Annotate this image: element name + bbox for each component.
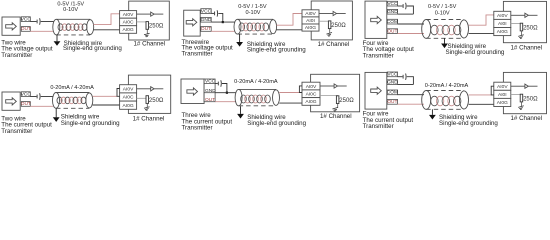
- P1R2 VCC wire: [30, 96, 36, 98]
- P3R1 resistor feed wire: [511, 22, 522, 24]
- P1R2 cable left end ellipse: [53, 93, 60, 109]
- svg-text:250Ω: 250Ω: [149, 98, 164, 104]
- P1R2 VCC wire b: [41, 96, 53, 98]
- svg-text:AI0G: AI0G: [123, 103, 134, 109]
- P3R1 shield ground arrow: [441, 44, 448, 49]
- svg-text:VCC: VCC: [21, 91, 32, 97]
- P3R1 VCC to GND loop: [407, 6, 414, 14]
- P1R2 arrow symbol: [6, 98, 17, 105]
- P2R1 channel outer box: [311, 1, 352, 40]
- P1R2 shield ground line: [55, 108, 57, 117]
- P2R1 shielded cable: top line: [238, 18, 274, 20]
- P1R2 transmitter box: [2, 92, 20, 110]
- P3R2 COM wire: [398, 94, 424, 96]
- P2R2 arrow symbol: [187, 88, 198, 95]
- P2R2 shield ground line: [240, 106, 242, 114]
- P2R1 buffer amplifier wire: [319, 13, 333, 15]
- P2R2 OUT red wire: [215, 101, 235, 103]
- P2R1 cable left end ellipse: [234, 19, 241, 34]
- svg-text:1# Channel: 1# Channel: [510, 115, 542, 122]
- P1R2 OUT red wire: [30, 105, 53, 107]
- svg-text:250Ω: 250Ω: [523, 96, 538, 102]
- P2R1 twisted pair loops: [239, 23, 269, 31]
- P3R2 resistor 250 ohm: [520, 94, 523, 102]
- P2R1 VCC wire: [211, 12, 214, 14]
- P3R2 internal earth symbol: [518, 106, 524, 110]
- P1R1 terminal AI0C: [120, 18, 137, 26]
- svg-text:GND: GND: [387, 9, 398, 15]
- svg-text:GND: GND: [205, 88, 216, 94]
- P3R1 channel outer box: [503, 1, 546, 42]
- svg-text:Transmitter: Transmitter: [1, 52, 32, 59]
- svg-text:0-10V: 0-10V: [63, 7, 78, 13]
- svg-text:Single-end grounding: Single-end grounding: [439, 120, 498, 127]
- P1R1 internal earth symbol: [144, 33, 150, 37]
- P3R2 pin label OUT: [387, 100, 397, 105]
- P1R1 shield ground line: [56, 35, 58, 41]
- svg-text:AI0C: AI0C: [306, 92, 317, 98]
- svg-text:AI0V: AI0V: [497, 13, 508, 19]
- P2R1 arrow symbol: [186, 19, 197, 26]
- P1R1 arrow symbol: [6, 23, 17, 30]
- svg-text:250Ω: 250Ω: [331, 23, 346, 29]
- P2R2 terminal AI0G: [302, 98, 320, 106]
- P2R2 VCC to GND drop: [222, 84, 227, 93]
- P3R2 GND wire: [398, 84, 414, 86]
- svg-text:AI0G: AI0G: [305, 99, 316, 105]
- svg-text:VCC: VCC: [205, 79, 216, 85]
- P2R1 terminal AI0G: [302, 24, 319, 31]
- P3R1 pin label COM: [387, 19, 397, 24]
- svg-text:0-20mA / 4-20mA: 0-20mA / 4-20mA: [425, 83, 469, 89]
- P3R1 buffer amplifier triangle: [525, 13, 528, 17]
- svg-text:Single-end grounding: Single-end grounding: [247, 120, 306, 127]
- P2R2 cable right end ellipse: [273, 90, 280, 106]
- P2R1 black wire to AI0G: [276, 29, 302, 31]
- svg-text:1# Channel: 1# Channel: [133, 115, 165, 122]
- P1R2 cable right end ellipse: [86, 93, 93, 108]
- P3R1 cable left end ellipse: [422, 20, 431, 39]
- svg-text:250Ω: 250Ω: [149, 24, 164, 30]
- svg-text:AI0G: AI0G: [497, 29, 508, 35]
- P3R1 shielded cable: bottom dashed line: [426, 37, 464, 39]
- P3R2 V-C jumper link: [491, 86, 494, 95]
- P3R1 transmitter box: [365, 1, 387, 38]
- P1R2 terminal AI0V: [120, 85, 137, 93]
- P2R1 pin label GND: [201, 17, 211, 22]
- P3R1 twisted pair loops: [431, 25, 461, 35]
- P1R1 terminal AI0G: [120, 26, 137, 34]
- P2R1 cable right end ellipse: [270, 20, 277, 34]
- P1R1 resistor feed wire: [137, 21, 148, 23]
- P1R2 resistor 250 ohm: [146, 96, 149, 104]
- P2R1 shield ground arrow: [236, 42, 243, 47]
- P2R2 buffer amplifier wire: [320, 85, 334, 87]
- P3R2 pin label COM: [387, 90, 397, 95]
- P2R1 terminal AI0V: [302, 10, 319, 17]
- P1R1 buffer amplifier triangle: [151, 12, 154, 16]
- svg-text:AI0I: AI0I: [306, 18, 315, 24]
- P3R1 internal earth symbol: [518, 35, 524, 39]
- P1R1 shielded cable: top line: [56, 18, 90, 20]
- P1R1 red wire to AI0V: [94, 14, 120, 25]
- svg-text:OUT: OUT: [387, 99, 397, 105]
- P2R2 terminal AI0C: [302, 90, 320, 98]
- P3R2 cable left end ellipse: [422, 91, 431, 110]
- svg-text:Single-end grounding: Single-end grounding: [446, 49, 505, 56]
- P2R2 VCC wire: [215, 83, 218, 85]
- svg-text:AI0V: AI0V: [123, 12, 134, 18]
- svg-text:OUT: OUT: [387, 28, 397, 34]
- svg-text:AI0V: AI0V: [305, 11, 316, 17]
- P2R2 resistor 250 ohm: [336, 96, 339, 104]
- svg-text:Single-end grounding: Single-end grounding: [61, 120, 120, 127]
- P3R1 shielded cable: top line: [426, 19, 464, 21]
- svg-text:AI0V: AI0V: [497, 84, 508, 90]
- P2R1 shielded cable: bottom dashed line: [238, 33, 274, 35]
- svg-text:AI0V: AI0V: [306, 84, 317, 90]
- P3R1 pin label VCC: [387, 1, 397, 6]
- P1R2 buffer amplifier triangle: [151, 87, 154, 91]
- P1R2 twisted pair loops: [57, 97, 86, 104]
- P1R2 resistor feed wire: [137, 97, 148, 99]
- svg-text:GND: GND: [201, 17, 212, 23]
- P3R1 terminal AI0I: [494, 19, 511, 27]
- P3R1 pin label GND: [387, 9, 397, 14]
- P2R2 shield ground arrow: [237, 114, 244, 119]
- P3R1 COM wire: [398, 23, 424, 25]
- P3R1 red wire to AI0V: [469, 15, 494, 25]
- P2R1 GND wire: [211, 21, 234, 23]
- P3R2 twisted pair loops: [431, 96, 461, 106]
- P2R1 pin label VCC: [201, 9, 211, 14]
- P3R1 resistor 250 ohm: [520, 23, 523, 31]
- P1R2 pin label OUT: [21, 102, 30, 107]
- P1R1 cable right end ellipse: [87, 20, 94, 35]
- P3R1 power supply (battery) symbol: [402, 4, 404, 8]
- svg-text:AI0I: AI0I: [498, 21, 507, 27]
- P3R2 cable right end ellipse: [460, 91, 469, 109]
- svg-text:AI0V: AI0V: [123, 87, 134, 93]
- P1R2 power supply (battery) symbol: [36, 95, 38, 99]
- P1R1 terminal AI0V: [120, 11, 137, 19]
- P1R1 power supply (battery) symbol: [36, 20, 38, 24]
- P1R2 pin label VCC: [21, 92, 30, 97]
- P2R1 transmitter box: [184, 10, 201, 36]
- svg-text:Transmitter: Transmitter: [363, 123, 394, 130]
- P2R2 internal earth symbol: [332, 107, 338, 111]
- P2R2 power supply (battery) symbol: [217, 82, 219, 86]
- P1R1 resistor 250 ohm: [146, 22, 149, 30]
- P1R1 cable left end ellipse: [53, 19, 60, 35]
- P3R1 OUT red wire: [398, 33, 424, 35]
- P1R2 buffer amplifier wire: [137, 88, 151, 90]
- P2R2 shielded cable: top line: [239, 88, 276, 90]
- svg-text:Transmitter: Transmitter: [363, 52, 394, 59]
- P2R2 junction dot: [226, 92, 228, 94]
- svg-text:0-10V: 0-10V: [246, 10, 261, 16]
- svg-text:OUT: OUT: [201, 26, 211, 32]
- svg-text:AI0G: AI0G: [305, 25, 316, 31]
- svg-text:1# Channel: 1# Channel: [510, 45, 542, 52]
- P3R2 transmitter box: [365, 72, 387, 109]
- svg-text:VCC: VCC: [21, 16, 32, 22]
- P1R1 pin label VCC: [21, 17, 30, 22]
- P1R1 VCC wire: [30, 21, 36, 23]
- P2R1 OUT red wire: [211, 30, 234, 32]
- P1R2 shielded cable: bottom dashed line: [56, 107, 89, 109]
- P3R1 arrow symbol: [371, 16, 382, 23]
- P1R1 VCC wire b: [41, 21, 54, 23]
- svg-text:VCC: VCC: [387, 1, 398, 7]
- P1R2 shielded cable: top line: [56, 92, 89, 94]
- P1R2 terminal AI0C: [120, 93, 137, 101]
- svg-text:AI0G: AI0G: [497, 100, 508, 106]
- P1R2 internal earth symbol: [144, 107, 150, 111]
- P3R1 shield ground line: [444, 38, 446, 43]
- P2R1 terminal AI0I: [302, 17, 319, 24]
- P3R2 pin label GND: [387, 80, 397, 85]
- P3R2 arrow symbol: [371, 87, 382, 94]
- P1R1 pin label OUT: [21, 27, 30, 32]
- svg-text:COM: COM: [387, 90, 398, 96]
- P3R2 terminal AI0I: [494, 90, 511, 98]
- P3R1 terminal AI0G: [494, 28, 511, 36]
- P1R1 channel outer box: [129, 1, 170, 40]
- P2R1 red wire to AI0V: [276, 14, 302, 26]
- P2R2 terminal AI0V: [302, 82, 320, 90]
- svg-text:VCC: VCC: [387, 72, 398, 78]
- P3R2 shield ground arrow: [429, 115, 436, 120]
- P3R2 red wire to jumper: [469, 94, 492, 96]
- P3R2 shield ground line: [431, 109, 433, 115]
- P1R1 shield ground arrow: [54, 41, 61, 46]
- svg-text:Single-end grounding: Single-end grounding: [63, 45, 122, 52]
- P1R2 channel outer box: [128, 75, 170, 113]
- P2R2 channel outer box: [311, 74, 360, 112]
- P3R1 black wire to AI0G: [469, 32, 494, 34]
- P1R1 shielded cable: bottom dashed line: [56, 34, 90, 36]
- P2R2 buffer amplifier triangle: [334, 84, 337, 88]
- P1R2 shield ground arrow: [53, 117, 60, 122]
- P2R1 shield ground line: [239, 34, 241, 42]
- P2R1 resistor feed wire: [319, 20, 330, 22]
- P3R2 shielded cable: top line: [426, 90, 464, 92]
- svg-text:AI0C: AI0C: [123, 20, 134, 26]
- P3R2 VCC to GND loop: [407, 77, 414, 85]
- P3R1 cable right end ellipse: [460, 20, 469, 38]
- P3R2 buffer amplifier triangle: [525, 84, 528, 88]
- svg-text:OUT: OUT: [21, 101, 31, 107]
- P2R1 VCC to GND drop: [218, 13, 223, 22]
- P2R2 pin ladder frame: [204, 79, 215, 102]
- P1R1 transmitter box: [2, 17, 20, 35]
- svg-text:1# Channel: 1# Channel: [320, 113, 352, 120]
- P3R2 power supply (battery) symbol: [402, 75, 404, 79]
- P1R1 buffer amplifier wire: [137, 13, 151, 15]
- svg-text:Transmitter: Transmitter: [182, 50, 213, 57]
- P3R1 GND wire: [398, 13, 414, 15]
- P2R1 junction dot: [222, 21, 224, 23]
- P3R2 VCC wire: [398, 76, 403, 78]
- P2R2 resistor feed wire: [320, 95, 338, 97]
- P1R1 twisted pair loops: [58, 24, 87, 31]
- P1R1 black wire to AI0G: [94, 29, 120, 31]
- P2R2 GND wire: [215, 92, 236, 94]
- svg-text:COM: COM: [387, 19, 398, 25]
- P2R1 pin label OUT: [201, 27, 211, 32]
- svg-text:VCC: VCC: [201, 8, 212, 14]
- P2R2 shielded cable: bottom dashed line: [239, 105, 276, 107]
- P3R1 terminal AI0V: [494, 11, 511, 19]
- svg-text:0-20mA / 4-20mA: 0-20mA / 4-20mA: [234, 79, 278, 85]
- P3R2 shielded cable: bottom dashed line: [426, 108, 464, 110]
- P2R2 black wire to AI0G: [279, 102, 302, 104]
- P2R1 buffer amplifier triangle: [333, 11, 336, 15]
- P3R2 channel outer box: [503, 72, 546, 113]
- svg-text:0-5V / 1-5V: 0-5V / 1-5V: [428, 4, 457, 10]
- P3R2 resistor feed wire: [511, 93, 522, 95]
- P1R1 OUT red wire: [30, 30, 53, 32]
- svg-text:AI0G: AI0G: [123, 27, 134, 33]
- P1R2 terminal AI0G: [120, 101, 137, 109]
- P1R2 red wire to jumper: [93, 95, 117, 97]
- P3R1 pin label OUT: [387, 29, 397, 34]
- svg-text:AI0C: AI0C: [123, 95, 134, 101]
- P2R2 cable left end ellipse: [235, 89, 242, 105]
- svg-text:GND: GND: [387, 79, 398, 85]
- P3R1 buffer amplifier wire: [511, 14, 525, 16]
- P3R2 pin label VCC: [387, 72, 397, 77]
- svg-text:OUT: OUT: [205, 97, 215, 103]
- P2R2 red wire to jumper: [279, 92, 300, 94]
- P3R2 terminal AI0G: [494, 98, 511, 106]
- svg-text:Transmitter: Transmitter: [182, 125, 213, 132]
- P2R1 internal earth symbol: [326, 33, 332, 37]
- P2R1 resistor 250 ohm: [328, 21, 331, 29]
- P2R2 transmitter box: [181, 79, 204, 104]
- svg-text:Transmitter: Transmitter: [1, 128, 32, 134]
- P3R1 VCC wire: [398, 5, 403, 7]
- svg-text:Single-end grounding: Single-end grounding: [247, 47, 306, 54]
- P1R2 V-C jumper link: [117, 89, 120, 97]
- P2R2 V-C jumper link: [299, 86, 302, 93]
- P3R2 buffer amplifier wire: [511, 85, 525, 87]
- svg-text:OUT: OUT: [21, 26, 31, 32]
- svg-text:AI0I: AI0I: [498, 92, 507, 98]
- P3R2 black wire to AI0G: [469, 103, 494, 105]
- svg-text:0-10V: 0-10V: [435, 11, 450, 17]
- P2R2 twisted pair loops: [241, 95, 271, 103]
- P3R2 terminal AI0V: [494, 82, 511, 90]
- svg-text:250Ω: 250Ω: [339, 98, 354, 104]
- svg-text:250Ω: 250Ω: [523, 25, 538, 31]
- svg-text:0-20mA / 4-20mA: 0-20mA / 4-20mA: [50, 85, 94, 91]
- P1R2 black wire to AI0G: [93, 104, 120, 106]
- svg-text:1# Channel: 1# Channel: [133, 40, 165, 47]
- svg-text:1# Channel: 1# Channel: [318, 41, 350, 48]
- P2R1 power supply (battery) symbol: [214, 12, 216, 16]
- P3R2 OUT red wire: [398, 103, 424, 105]
